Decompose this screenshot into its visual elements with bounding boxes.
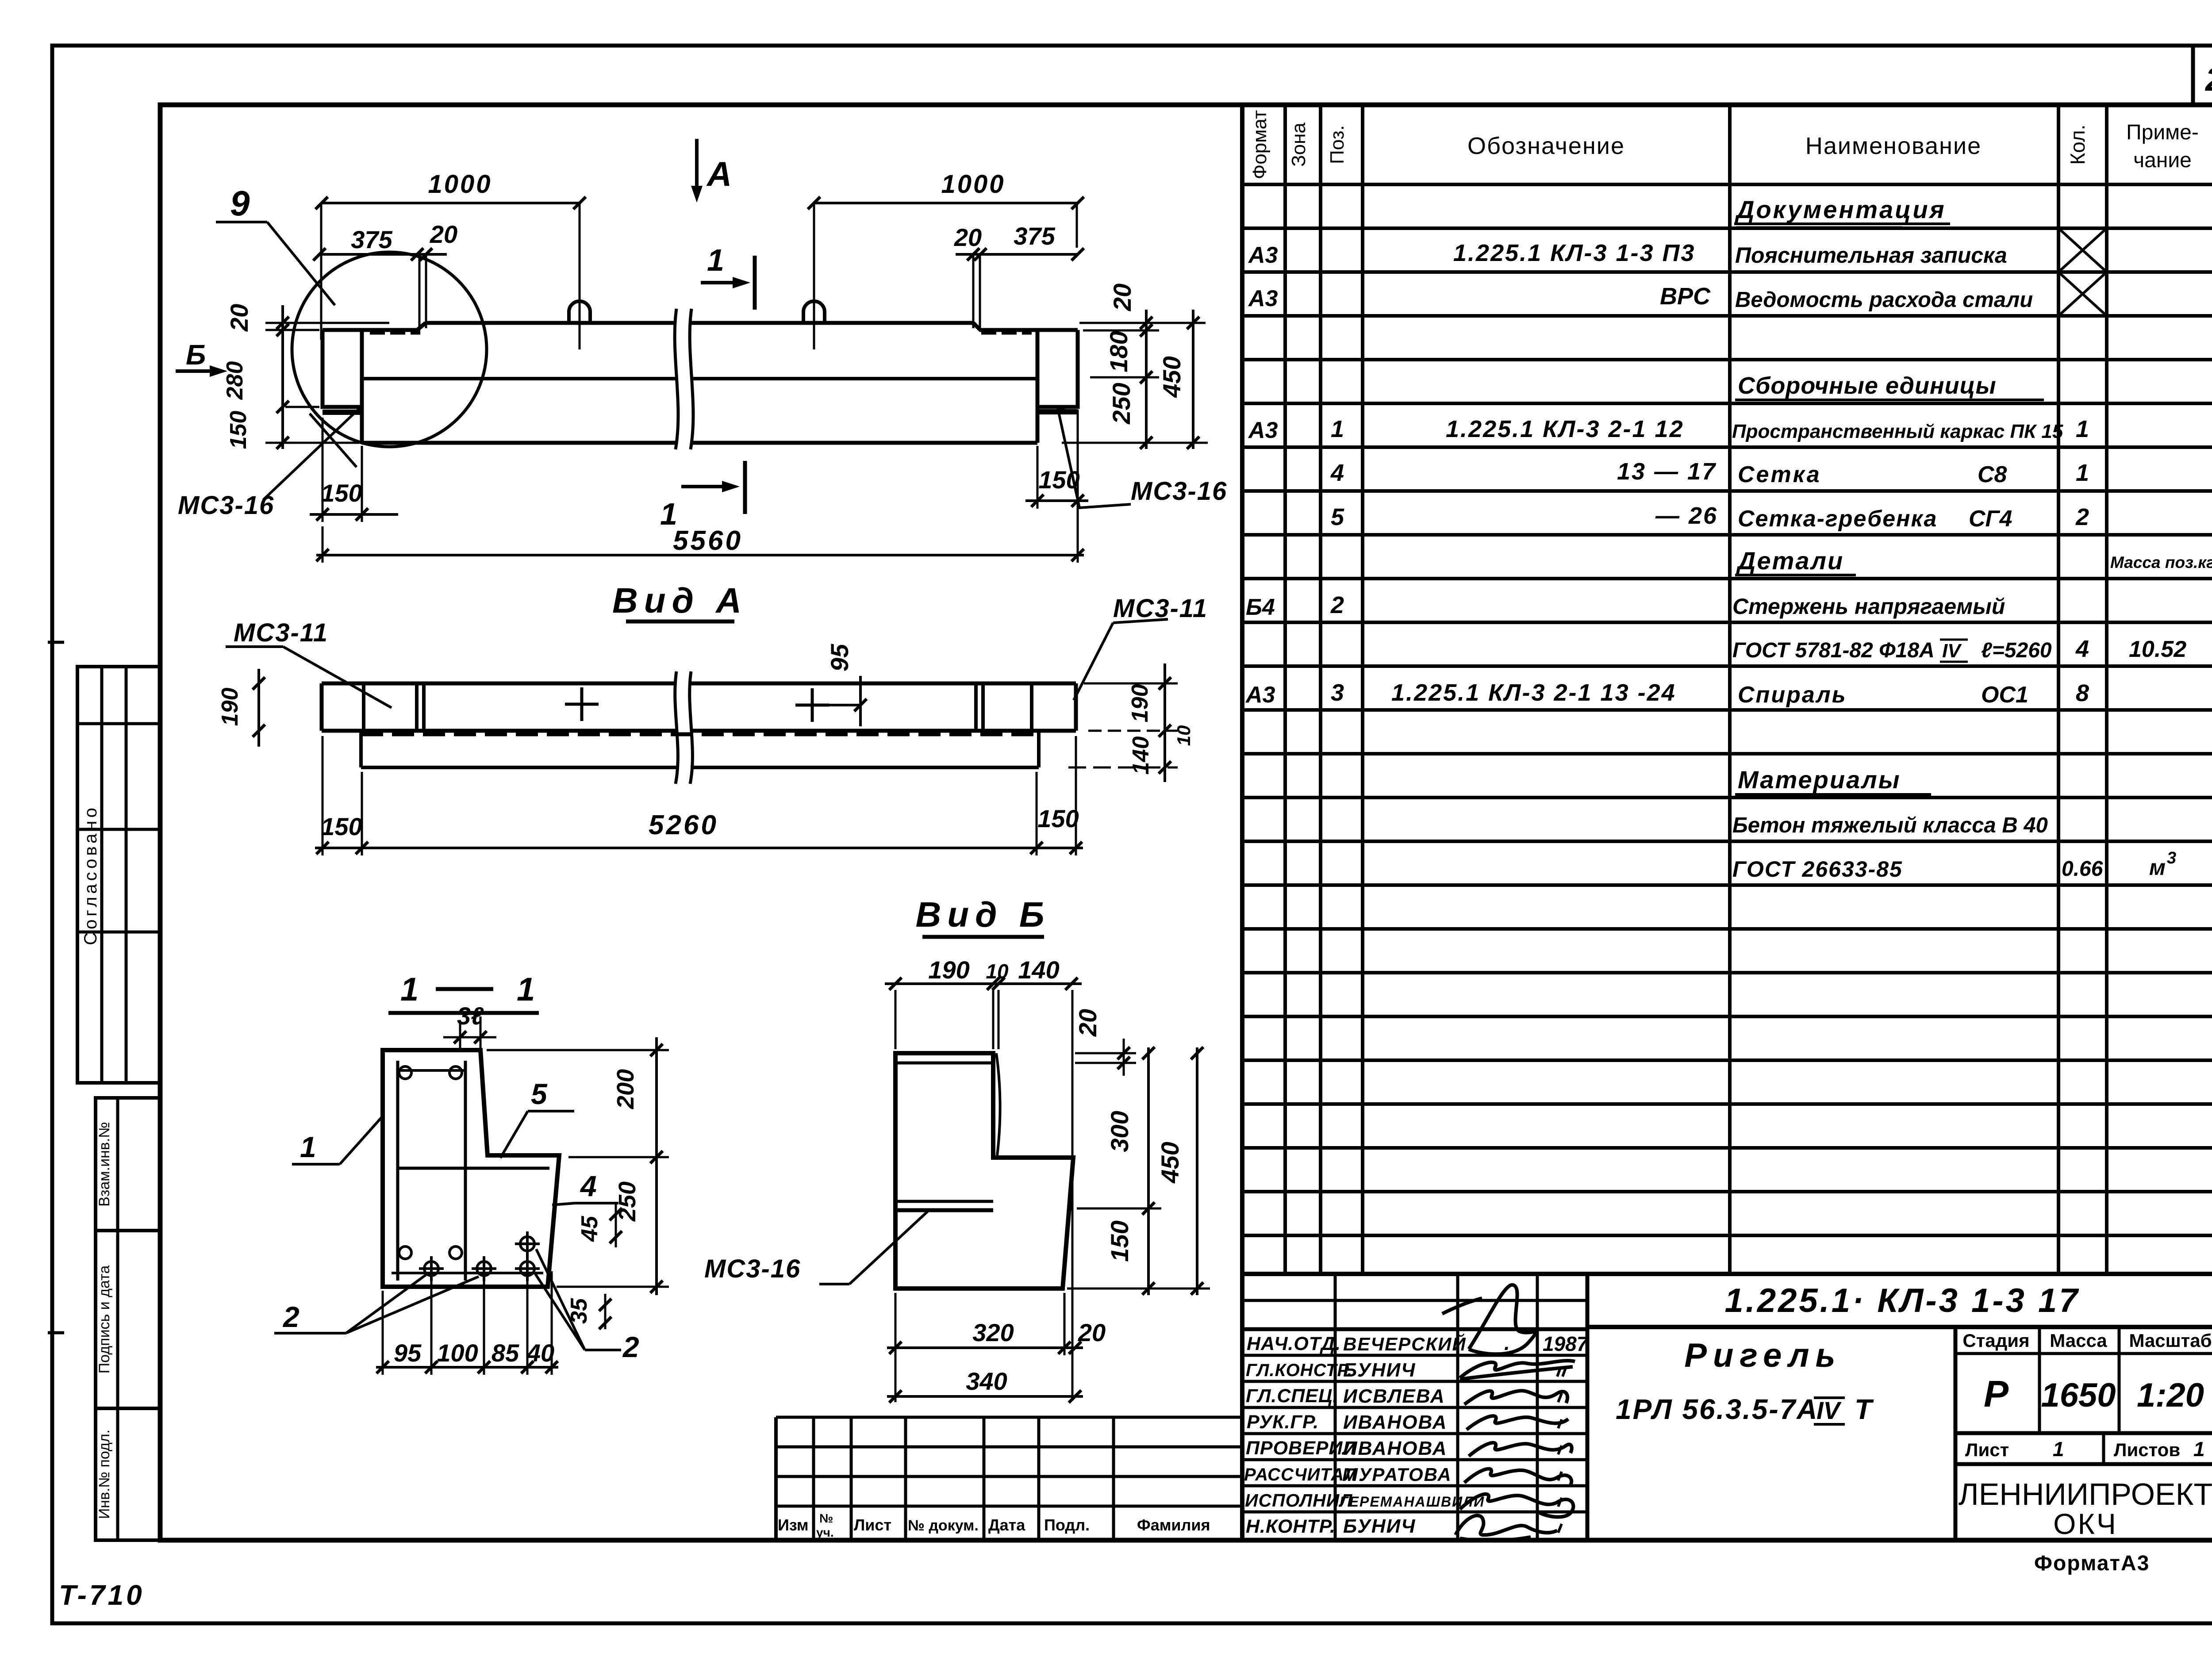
svg-text:уч.: уч. [816,1526,834,1539]
svg-text:Сетка: Сетка [1738,462,1821,487]
svg-text:ℓ=5260: ℓ=5260 [1981,639,2052,662]
svg-text:Стержень напрягаемый: Стержень напрягаемый [1732,594,2005,619]
svg-text:280: 280 [222,361,248,400]
section 1-1 right dims 200 250 [487,1037,669,1295]
label 4 with leader [552,1170,618,1205]
svg-text:ВРС: ВРС [1660,283,1711,310]
svg-text:БУНИЧ: БУНИЧ [1343,1515,1416,1537]
format note FormatA3 [2034,1552,2150,1575]
svg-text:20: 20 [1074,1009,1102,1037]
svg-text:1: 1 [1331,416,1344,442]
svg-text:А3: А3 [1248,242,1278,268]
svg-text:А: А [706,154,732,193]
svg-text:БУНИЧ: БУНИЧ [1343,1359,1416,1381]
svg-text:300: 300 [1106,1111,1133,1152]
table row: GOST 26633-85 [1732,849,2176,882]
svg-text:2: 2 [2075,504,2089,530]
view B section dims 300 450 150 [1067,1047,1210,1295]
inventory code T-710 [59,1579,145,1611]
revision table headers [778,1511,1210,1539]
View B break lines [675,671,693,784]
svg-text:ГЛ.КОНСТР.: ГЛ.КОНСТР. [1246,1361,1352,1380]
label 2 left with leaders [274,1275,479,1333]
label 2 right with leaders [535,1249,639,1363]
section mark 1 lower [660,461,745,531]
svg-text:Лист: Лист [854,1516,891,1534]
dim 45 [577,1203,622,1247]
svg-text:40: 40 [526,1339,554,1367]
svg-text:Вид Б: Вид Б [916,895,1051,934]
dim 35 [566,1294,611,1329]
svg-text:ОС1: ОС1 [1981,682,2028,708]
svg-text:МС3-16: МС3-16 [178,491,274,520]
svg-text:— 26: — 26 [1655,502,1718,529]
svg-text:4: 4 [1330,460,1344,486]
dim 375 and 20 left [313,220,457,328]
table header labels [1249,110,2199,179]
svg-text:320: 320 [972,1319,1014,1346]
label MS3-16 right with leader [1058,407,1227,508]
svg-text:Сетка-гребенка: Сетка-гребенка [1738,506,1937,532]
svg-text:150: 150 [321,813,362,840]
svg-text:20: 20 [954,223,982,251]
svg-text:1: 1 [2193,1438,2205,1461]
svg-text:Поз.: Поз. [1326,125,1348,164]
table row: sterzhen napryagaemyi [1246,592,2005,620]
sidebar box Vzam.inv. [96,1098,160,1231]
svg-text:Кол.: Кол. [2066,125,2089,165]
svg-text:95: 95 [826,644,853,671]
svg-text:1000: 1000 [941,170,1005,199]
svg-text:2: 2 [1330,592,1344,618]
svg-text:СГ4: СГ4 [1969,506,2012,532]
svg-text:ОКЧ: ОКЧ [2053,1507,2118,1540]
stamp signatures [1442,1285,1575,1541]
svg-text:20: 20 [430,220,457,248]
approval sidebar box Soglasovano [77,667,160,1083]
View B beam band [322,683,1076,731]
fold tick marks on left border [48,642,64,1333]
document designation cell [1587,1282,2212,1327]
svg-text:Материалы: Материалы [1738,766,1901,794]
sheet number box 26 [2193,46,2212,105]
dim 1000 right [808,170,1084,248]
svg-text:180: 180 [1105,331,1133,372]
svg-text:4: 4 [2075,636,2089,662]
svg-text:8: 8 [2076,680,2089,706]
svg-text:Сборочные единицы: Сборочные единицы [1738,372,1997,399]
svg-text:Н.КОНТР.: Н.КОНТР. [1246,1516,1336,1537]
svg-text:150: 150 [226,411,251,449]
svg-text:375: 375 [351,226,392,253]
sidebar box Inv.N podl. [96,1408,160,1540]
svg-text:ВЕЧЕРСКИЙ: ВЕЧЕРСКИЙ [1343,1333,1467,1354]
table row: Materialy section title [1735,766,1931,794]
svg-text:А3: А3 [1248,418,1278,443]
svg-text:450: 450 [1158,356,1186,398]
svg-text:РУК.ГР.: РУК.ГР. [1247,1411,1319,1433]
svg-text:1:20: 1:20 [2137,1377,2204,1414]
svg-text:ГОСТ 26633-85: ГОСТ 26633-85 [1732,857,1903,882]
svg-text:13 — 17: 13 — 17 [1617,458,1717,485]
stage mass scale values [1984,1373,2204,1415]
View A beam outline [323,323,1078,443]
svg-text:1: 1 [2053,1438,2064,1461]
title View A [612,581,748,621]
svg-text:1.225.1 КЛ-3 1-3 П3: 1.225.1 КЛ-3 1-3 П3 [1453,240,1695,266]
svg-text:20: 20 [225,304,253,332]
svg-text:150: 150 [1106,1220,1133,1262]
svg-text:Изм: Изм [778,1516,809,1534]
svg-text:1: 1 [517,971,535,1008]
svg-text:5260: 5260 [649,810,718,840]
svg-text:340: 340 [966,1367,1007,1395]
svg-text:85: 85 [492,1339,519,1367]
svg-text:Приме-: Приме- [2126,121,2199,144]
View B end zone lines [364,683,1032,731]
svg-text:20: 20 [1078,1319,1106,1346]
svg-text:Стадия: Стадия [1962,1330,2029,1351]
svg-text:250: 250 [1107,383,1135,424]
embedded plate strip on top recess right [981,329,1032,335]
svg-text:250: 250 [614,1181,641,1222]
dim 375 and 20 right [954,222,1084,328]
svg-text:5560: 5560 [673,525,743,556]
svg-text:Масштаб: Масштаб [2129,1330,2212,1351]
svg-text:Масса поз.кг: Масса поз.кг [2110,553,2212,571]
svg-text:0.66: 0.66 [2062,857,2103,881]
svg-text:Формат: Формат [1249,110,1271,179]
view B section inner curve [996,1053,1000,1155]
svg-text:Пояснительная записка: Пояснительная записка [1735,243,2007,268]
section 1-1 tensioned bar circles with cross [419,1231,540,1281]
svg-text:№: № [819,1511,833,1525]
svg-text:Инв.№ подл.: Инв.№ подл. [96,1430,113,1519]
view B section top double line [895,1062,993,1065]
section 1-1 title [388,971,539,1013]
view B section flange lines [895,1201,993,1210]
View B right dims 190 10 140 [1068,663,1194,782]
svg-text:140: 140 [1128,736,1154,775]
svg-text:2: 2 [622,1331,639,1363]
organization cell LENNIIPROEKT OKCh [1959,1477,2212,1540]
stamp surname entries [1340,1333,1485,1537]
svg-text:5: 5 [1331,504,1344,530]
svg-text:200: 200 [612,1069,639,1109]
svg-text:1987: 1987 [1543,1332,1589,1355]
svg-text:ЛЕННИИПРОЕКТ: ЛЕННИИПРОЕКТ [1959,1477,2212,1511]
inner drawing frame [160,105,2212,1540]
view B section bottom dims 320 20 340 [887,1293,1106,1403]
svg-text:375: 375 [1014,222,1055,250]
svg-text:1650: 1650 [2041,1377,2116,1414]
svg-text:МС3-16: МС3-16 [1131,477,1227,506]
loop position cross left [565,687,599,721]
lifting loop right [803,203,825,349]
sidebar box Podpis i data [96,1231,160,1408]
svg-text:190: 190 [1127,684,1153,723]
svg-text:С8: С8 [1978,462,2007,487]
table row: sborochnye edinicy section title [1735,372,2044,400]
svg-text:190: 190 [928,956,969,984]
svg-text:Документация: Документация [1735,196,1946,223]
svg-text:5: 5 [531,1078,548,1110]
detail label 9 [216,184,335,305]
svg-text:1: 1 [2076,460,2089,486]
svg-text:Зона: Зона [1288,123,1310,167]
svg-text:Бетон тяжелый класса В 40: Бетон тяжелый класса В 40 [1732,813,2048,837]
table row: setka C8 [1330,458,2089,487]
lifting loop left [569,203,590,349]
svg-text:1РЛ 56.3.5-7А: 1РЛ 56.3.5-7А [1616,1393,1819,1425]
embedded plate MS3-16 left (bottom) [323,410,362,415]
revision table [776,1417,1242,1540]
svg-text:А3: А3 [1248,286,1278,311]
section mark 1 upper [701,243,755,310]
svg-text:1.225.1 КЛ-3 2-1 12: 1.225.1 КЛ-3 2-1 12 [1446,416,1684,442]
section arrow A [691,139,732,203]
svg-text:10: 10 [1173,725,1194,746]
svg-text:МС3-16: МС3-16 [704,1254,801,1283]
label MS3-11 right with leader [1074,594,1208,700]
svg-text:450: 450 [1156,1142,1184,1183]
svg-text:3ℓ: 3ℓ [457,1002,484,1030]
svg-text:Б: Б [186,339,206,371]
label MS3-16 left with leader [178,405,363,520]
svg-text:Ригель: Ригель [1684,1337,1841,1374]
table row: poyasnitelnaya zapiska [1248,228,2107,272]
dim 150 left bottom [310,418,398,522]
svg-text:ФорматА3: ФорматА3 [2034,1552,2150,1575]
svg-text:T-710: T-710 [59,1579,145,1611]
svg-text:Подпись и дата: Подпись и дата [96,1266,113,1374]
svg-text:1: 1 [707,243,724,277]
svg-text:IV: IV [1816,1396,1842,1424]
svg-text:НАЧ.ОТД.: НАЧ.ОТД. [1247,1333,1341,1354]
svg-text:IV: IV [1942,640,1962,662]
svg-text:ИСПОЛНИЛ: ИСПОЛНИЛ [1245,1490,1352,1511]
svg-text:м: м [2149,855,2166,880]
label 1 with leader [292,1115,384,1164]
table row: beton tyazhelyi [1732,813,2048,837]
svg-text:Т: Т [1855,1393,1874,1425]
label MS3-11 left with leader [226,618,392,708]
svg-text:Листов: Листов [2114,1439,2180,1460]
svg-text:2: 2 [282,1300,300,1333]
svg-text:190: 190 [217,688,243,726]
svg-text:1000: 1000 [428,170,492,199]
table row: prostranstvennyi karkas [1248,416,2089,443]
svg-text:Фамилия: Фамилия [1137,1516,1210,1534]
svg-text:9: 9 [230,184,250,223]
title cell Rigel [1616,1327,1955,1540]
dim 38 top of section [443,1002,496,1052]
svg-text:1: 1 [2076,416,2089,442]
view B section dim 20 top right [1074,1009,1136,1076]
svg-text:1: 1 [400,971,419,1008]
svg-text:ПРОВЕРИЛ: ПРОВЕРИЛ [1246,1438,1356,1459]
view B section outline [895,1053,1073,1289]
svg-text:№ докум.: № докум. [908,1517,979,1534]
table row: Dokumentaciya section title [1734,196,1950,227]
svg-text:26: 26 [2204,61,2212,98]
section 1-1 rebar circles [399,1066,462,1259]
svg-text:ГЛ.СПЕЦ.: ГЛ.СПЕЦ. [1246,1385,1338,1407]
svg-text:3: 3 [2167,849,2176,867]
svg-text:Наименование: Наименование [1805,133,1982,159]
dim 5560 overall [316,525,1084,563]
svg-text:4: 4 [580,1170,597,1202]
svg-text:100: 100 [437,1339,478,1367]
svg-text:Лист: Лист [1965,1439,2009,1460]
table row: GOST 5781-82 [1732,636,2186,662]
dim 1000 left [315,170,586,340]
section 1-1 stirrup cage [392,1061,549,1281]
section 1-1 concrete outline [383,1050,559,1287]
label 5 with leader [500,1078,574,1158]
view arrow B [176,339,227,377]
view B section top dims 190 10 140 [885,956,1082,1399]
svg-text:95: 95 [394,1339,422,1367]
svg-text:10: 10 [986,960,1009,983]
svg-text:1.225.1 КЛ-3 2-1 13 -24: 1.225.1 КЛ-3 2-1 13 -24 [1391,679,1676,706]
dim 5260 with 150 ends [315,736,1083,855]
svg-text:35: 35 [566,1298,592,1324]
svg-text:Спираль: Спираль [1738,682,1847,708]
svg-text:А3: А3 [1245,682,1275,708]
svg-text:ИСВЛЕВА: ИСВЛЕВА [1343,1385,1445,1407]
svg-text:Обозначение: Обозначение [1467,133,1625,159]
embedded plate strip on top recess left [370,329,420,335]
beam break lines [675,309,693,449]
svg-text:Масса: Масса [2050,1330,2107,1351]
title block stamp grid [1242,1274,1587,1540]
title View B [916,895,1051,937]
table row: spiral OC1 [1245,679,2089,708]
section 1-1 bottom dims 95 100 85 40 [376,1271,558,1375]
svg-text:150: 150 [1037,805,1079,832]
svg-text:Р: Р [1984,1373,2009,1415]
detail circle [292,252,487,447]
table row: Detali section title [1735,547,2212,575]
table row: vedomost rashoda stali [1248,272,2107,316]
svg-text:Взам.инв.№: Взам.инв.№ [96,1122,113,1207]
label MS3-16 with leader [704,1209,930,1284]
svg-text:ИВАНОВА: ИВАНОВА [1343,1411,1447,1433]
svg-text:20: 20 [1108,284,1136,311]
svg-text:Б4: Б4 [1246,594,1275,620]
svg-text:Дата: Дата [988,1516,1025,1534]
svg-text:1.225.1· КЛ-3 1-3 17: 1.225.1· КЛ-3 1-3 17 [1724,1282,2080,1319]
svg-text:Вид А: Вид А [612,581,748,620]
svg-text:РАССЧИТАЛ: РАССЧИТАЛ [1244,1465,1357,1484]
loop position cross right [795,688,829,722]
View B left dim 190 [217,669,265,747]
svg-text:140: 140 [1018,956,1059,984]
svg-text:МС3-11: МС3-11 [234,618,328,647]
View B bottom plate [361,731,1039,767]
stage mass scale header [1955,1327,2212,1433]
sheet row list listov [1955,1433,2212,1464]
table row: setka-grebenka SG4 [1331,502,2089,532]
specification table grid [1242,105,2212,1540]
svg-text:3: 3 [1331,679,1344,706]
svg-text:Детали: Детали [1736,547,1844,575]
svg-text:Пространственный каркас ПК 15: Пространственный каркас ПК 15 [1732,421,2063,442]
dim 95 loop offset [826,644,867,726]
svg-text:Согласовано: Согласовано [81,805,100,945]
left vertical dim chain 20 280 150 [222,304,389,449]
svg-text:150: 150 [321,479,362,507]
svg-text:МУРАТОВА: МУРАТОВА [1342,1464,1452,1485]
svg-text:ГОСТ 5781-82 Ф18А: ГОСТ 5781-82 Ф18А [1732,639,1935,662]
stamp dates [1504,1331,1589,1533]
svg-text:1: 1 [300,1131,316,1163]
stamp role labels [1244,1333,1357,1537]
svg-text:.: . [1504,1331,1510,1354]
dim 150 right bottom [1025,410,1088,563]
svg-text:Подл.: Подл. [1044,1516,1090,1534]
svg-text:ИВАНОВА: ИВАНОВА [1343,1438,1447,1459]
svg-text:Ведомость расхода стали: Ведомость расхода стали [1735,288,2033,312]
svg-text:10.52: 10.52 [2129,637,2186,662]
svg-text:чание: чание [2133,149,2192,172]
svg-text:45: 45 [577,1216,603,1242]
embedded plate MS3-16 right (bottom) [1037,409,1078,414]
right vertical dim chain 20 180 250 450 [1062,284,1208,449]
